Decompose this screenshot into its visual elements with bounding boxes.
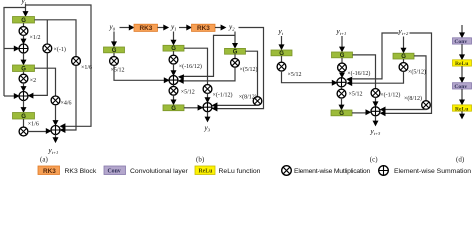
svg-text:Element-wise Summation: Element-wise Summation — [394, 168, 471, 175]
multiplier x(-16/12) — [169, 55, 178, 64]
wire y2 down to G — [234, 32, 236, 45]
svg-text:×(8/12): ×(8/12) — [404, 95, 422, 102]
multiplier x1/6 — [19, 127, 28, 136]
svg-text:Conv: Conv — [454, 84, 467, 90]
block Conv no.2 — [453, 83, 472, 90]
block G c-col3 — [393, 53, 414, 60]
wire RK3 no.1 to y1 — [158, 27, 165, 29]
wire output (a) — [55, 135, 57, 139]
wire y_t+2 down to G c — [403, 37, 405, 50]
multiplier x5/12 c-mid — [337, 89, 346, 98]
wire G c-col2 right tap to x(-1/12) rail — [353, 55, 376, 89]
svg-text:ReLu function: ReLu function — [219, 168, 261, 175]
legend ReLu box — [195, 166, 215, 175]
svg-text:G: G — [339, 111, 344, 117]
multiplier x(8/12) — [253, 97, 262, 106]
svg-text:RK3: RK3 — [197, 25, 210, 32]
legend Conv box — [104, 166, 126, 175]
wire G3 to mult3 — [23, 119, 25, 127]
block G b-col1 — [104, 47, 125, 54]
multiplier x2 — [19, 74, 28, 83]
wire b-col3 to mid sum lower right — [180, 67, 236, 81]
legend multiplication symbol — [282, 166, 292, 176]
wire G c-col3 right tap to x(8/12) rail — [414, 56, 426, 101]
multiplier x(5/12) b-col3 — [231, 58, 240, 67]
svg-text:×4/6: ×4/6 — [61, 101, 72, 107]
wire mult to mid sum b — [173, 64, 175, 72]
svg-text:×5/12: ×5/12 — [181, 89, 195, 95]
legend RK3 box — [38, 166, 60, 175]
wire y0 to RK3 no.1 — [120, 27, 131, 29]
block Conv no.1 — [453, 38, 472, 45]
wire y1 down to G — [173, 32, 175, 42]
wire RK3 no.2 to y2 — [215, 27, 222, 29]
svg-text:(c): (c) — [370, 156, 378, 164]
block RK3 no.1 — [134, 24, 158, 32]
wire G b-col3 right tap to x(8/12) rail — [246, 51, 258, 97]
svg-text:×(5/12): ×(5/12) — [240, 66, 258, 73]
block G b-col3 — [225, 48, 246, 55]
svg-text:×(-16/12): ×(-16/12) — [179, 63, 202, 70]
wire G to mult b-col3 — [234, 54, 236, 58]
wire x4/6 to final sum — [55, 105, 57, 122]
wire x(-1) to sum2 — [30, 53, 48, 96]
wire input arrow d — [461, 25, 463, 34]
svg-text:(a): (a) — [40, 156, 48, 164]
svg-text:×(-1/12): ×(-1/12) — [213, 92, 233, 99]
svg-text:×1/6: ×1/6 — [28, 122, 39, 128]
multiplier x4/6 — [51, 96, 60, 105]
wire G bottom to final sum b — [184, 107, 199, 109]
svg-text:Convolutional layer: Convolutional layer — [130, 168, 189, 175]
multiplier x(-1/12) c — [371, 89, 380, 98]
wire x(8/12) to final sum c upper right — [382, 108, 427, 110]
wire ReLu1 to Conv2 — [461, 66, 463, 79]
wire output c — [375, 116, 377, 122]
block G2 — [13, 65, 35, 73]
multiplier x(-1) — [43, 44, 52, 53]
svg-text:×(8/12): ×(8/12) — [239, 93, 257, 100]
wire y1 to RK3 no.2 — [179, 27, 188, 29]
svg-text:(d): (d) — [456, 156, 465, 164]
block RK3 no.2 — [192, 24, 216, 32]
svg-text:Element-wise Mutliplication: Element-wise Mutliplication — [294, 168, 370, 175]
block G3 — [13, 113, 35, 121]
wire y0 down to G — [113, 32, 115, 43]
multiplier x(8/12) c — [422, 101, 431, 110]
svg-text:RK3: RK3 — [43, 168, 56, 175]
wire output arrow d — [461, 111, 463, 115]
svg-text:ReLu: ReLu — [199, 169, 214, 175]
svg-text:×5/12: ×5/12 — [288, 72, 302, 78]
block G1 — [13, 17, 35, 25]
wire G2 output rail to x4/6 — [35, 68, 56, 96]
legend summation symbol — [379, 166, 389, 176]
svg-text:(b): (b) — [196, 156, 205, 164]
block ReLu no.2 — [453, 105, 472, 112]
multiplier x5/12 b-col1 — [110, 57, 119, 66]
multiplier x(5/12) c-col3 — [399, 63, 408, 72]
svg-text:×(5/12): ×(5/12) — [408, 69, 426, 76]
multiplier x1/2 — [19, 27, 28, 36]
wire y_t+2 left tap to mid sum upper right — [348, 33, 399, 79]
wire sum2 to G3 — [23, 101, 25, 109]
svg-text:×(-16/12): ×(-16/12) — [347, 70, 370, 77]
wire sum1 to G2 — [23, 53, 25, 61]
svg-text:×1/2: ×1/2 — [30, 35, 41, 41]
wire left rail branch into sum1 — [4, 48, 17, 50]
wire Conv1 to ReLu1 — [461, 44, 463, 56]
wire y_t right rail to final sum — [26, 5, 92, 126]
mid summation b — [169, 76, 178, 85]
multiplier x5/12 c-col1 — [277, 62, 286, 71]
wire mult3 to final sum — [28, 131, 49, 133]
final summation b — [203, 103, 212, 112]
svg-text:×2: ×2 — [30, 78, 36, 84]
svg-text:×1/6: ×1/6 — [81, 65, 92, 71]
block ReLu no.1 — [453, 60, 472, 67]
wire y_t+1 down to G c — [341, 36, 343, 48]
wire x(-1/12) to final sum b — [207, 93, 209, 99]
block G b-bottom — [163, 105, 184, 112]
wire mult2 to sum2 — [23, 83, 25, 88]
multiplier x(-16/12) c — [338, 63, 347, 72]
wire mult1 to sum1 — [23, 35, 25, 40]
wire G1 to mult1 — [23, 23, 25, 27]
wire Conv2 to ReLu2 — [461, 89, 463, 101]
final summation c — [371, 107, 380, 116]
summation sum2 — [19, 92, 28, 101]
wire G to mult c-col2 — [341, 58, 343, 63]
wire mult to G bottom c — [341, 98, 343, 106]
svg-text:×(-1/12): ×(-1/12) — [380, 91, 400, 98]
wire G to mult b-col2 — [173, 51, 175, 55]
svg-text:Conv: Conv — [454, 39, 467, 45]
wire output b — [207, 112, 209, 118]
wire x(8/12) to final sum b upper right — [214, 104, 258, 106]
final summation (a) — [51, 126, 60, 135]
wire G to mult b-col1 — [113, 53, 115, 57]
svg-text:G: G — [171, 106, 176, 112]
wire left rail branch into sum2 — [4, 95, 17, 97]
block G c-col1 — [271, 50, 292, 57]
block G c-bottom — [331, 110, 352, 117]
wire G bottom to final sum c — [352, 112, 367, 114]
multiplier x1/6 right — [72, 57, 81, 66]
wire G1 output rail to x1/6 — [35, 20, 77, 57]
wire G1 tap to x(-1) — [46, 20, 48, 44]
wire mid sum to mult x5/12 c — [341, 87, 343, 89]
svg-text:×(-1): ×(-1) — [54, 46, 66, 53]
wire G2 to mult2 — [23, 72, 25, 75]
wire G to mult c-col3 — [403, 59, 405, 63]
svg-text:RK3: RK3 — [140, 25, 153, 32]
wire c-col3 to mid sum lower right — [348, 71, 404, 83]
wire y2 right rail to final sum b — [214, 28, 264, 109]
wire G b-col2 right tap to x(-1/12) rail — [184, 48, 208, 84]
svg-text:Conv: Conv — [108, 169, 121, 175]
wire y_t down to G c — [281, 36, 283, 46]
wire x(-1/12) to final sum c — [375, 97, 377, 103]
block G b-col2 — [163, 45, 184, 52]
wire b-col1 to mid sum — [114, 65, 166, 80]
wire c-col1 to mid sum c — [282, 71, 334, 83]
wire input arrow into G1 — [25, 4, 27, 13]
wire y_t left rail — [4, 8, 26, 97]
svg-text:×5/12: ×5/12 — [349, 92, 363, 98]
multiplier x(-1/12) b — [203, 85, 212, 94]
svg-text:RK3 Block: RK3 Block — [65, 168, 97, 175]
wire mult to G bottom b — [173, 95, 175, 101]
wire mult to mid sum c — [341, 72, 343, 74]
wire G to mult c-col1 — [281, 56, 283, 62]
wire x1/6 right to final sum — [62, 65, 77, 130]
mid summation c — [337, 78, 346, 87]
wire y2 left tap to mid sum upper right — [180, 35, 235, 76]
summation sum1 — [19, 44, 28, 53]
wire y_t+2 right rail to final sum c — [382, 33, 432, 113]
wire mid sum to mult x5/12 b — [173, 85, 175, 87]
multiplier x5/12 b-mid — [169, 86, 178, 95]
block G c-col2 — [332, 52, 353, 59]
svg-text:×5/12: ×5/12 — [111, 68, 125, 74]
